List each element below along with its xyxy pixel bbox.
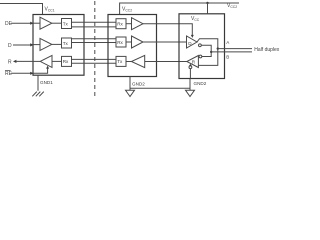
GND2 drop from transceiver <box>189 79 191 91</box>
ground GND2 triangle left <box>126 90 135 96</box>
GND2 drop from side-2 box <box>129 77 131 91</box>
svg-text:Tx: Tx <box>63 41 69 46</box>
node B junction dot <box>210 51 212 53</box>
wire pair channel3 bottom <box>72 62 117 64</box>
Tx3 box <box>116 56 126 66</box>
wire pair channel1 bottom <box>72 26 117 28</box>
svg-text:GND1: GND1 <box>40 80 53 85</box>
driver noninverting output wire <box>197 39 218 66</box>
wire channel1 out to DE enable <box>143 24 192 35</box>
wire Rx2 to buffer <box>126 23 132 25</box>
driver inverting bubble <box>199 44 202 47</box>
wire pair channel1 top <box>72 21 117 23</box>
svg-text:D: D <box>8 43 12 49</box>
svg-text:RE: RE <box>5 71 13 77</box>
svg-text:R: R <box>8 59 12 65</box>
buffer U2B triangle <box>132 36 144 48</box>
wire RE input <box>11 72 31 74</box>
transceiver box <box>179 14 225 79</box>
receiver R triangle <box>187 56 199 68</box>
wire RE enable <box>33 68 48 74</box>
wire R output inside <box>33 60 40 62</box>
wire R output outside <box>16 60 33 62</box>
isolation barrier dashed line <box>94 1 96 98</box>
wire channel2 out to D input <box>143 41 187 43</box>
overline RE <box>5 70 11 72</box>
isolator side-2 box <box>108 15 157 77</box>
VCC1 rail <box>0 4 43 15</box>
node A junction dot <box>217 47 219 49</box>
Rx2 box <box>116 19 126 29</box>
wire DE input <box>11 22 31 24</box>
ground GND2 triangle right <box>186 90 195 96</box>
Rx1 box <box>62 56 72 66</box>
Tx2 box <box>62 38 72 48</box>
arrow DE enable into driver <box>191 35 194 38</box>
wire DE inside to buffer <box>33 22 40 24</box>
buffer U2C triangle left <box>131 55 144 67</box>
wire buffer to Tx1 <box>52 22 62 24</box>
wire bus A <box>218 48 252 50</box>
buffer U1A triangle <box>40 17 52 29</box>
wire VCC drop to transceiver <box>207 3 209 14</box>
wire pair channel3 top <box>72 58 117 60</box>
wire R return from transceiver <box>145 61 187 63</box>
svg-text:R: R <box>192 59 196 64</box>
svg-text:DE: DE <box>5 21 13 27</box>
wire inverting output <box>201 45 211 56</box>
svg-text:Rx: Rx <box>117 40 123 45</box>
svg-text:VCC: VCC <box>191 16 200 22</box>
arrow RE into box <box>30 72 33 75</box>
svg-text:Tx: Tx <box>63 21 69 26</box>
wire Rx3 to buffer <box>126 41 132 43</box>
wire D inside to buffer <box>33 44 40 46</box>
receiver inverting bubble <box>199 55 202 58</box>
wire D input <box>13 44 31 46</box>
svg-text:B: B <box>226 55 229 60</box>
Tx1 box <box>62 19 72 29</box>
svg-text:A: A <box>226 40 230 45</box>
ground GND1 earth symbol <box>32 92 44 97</box>
svg-text:VCC1: VCC1 <box>45 7 55 13</box>
svg-text:Rx: Rx <box>63 59 69 64</box>
svg-text:VCC2: VCC2 <box>122 7 132 13</box>
buffer U2A triangle <box>132 18 144 30</box>
receiver enable bubble <box>189 66 192 69</box>
VCC2 rail <box>120 3 239 15</box>
svg-text:VCC2: VCC2 <box>227 3 237 9</box>
wire bus B <box>211 51 252 53</box>
wire buffer to Tx3 <box>126 61 131 63</box>
arrow R out <box>13 60 16 63</box>
wire Rx1 to buffer <box>52 60 62 62</box>
isolator side-1 box <box>33 15 84 76</box>
wire receiver enable to GND2 <box>189 69 191 79</box>
buffer U1B triangle <box>40 38 52 50</box>
wire buffer to Tx2 <box>52 43 62 45</box>
GND1 stub <box>37 75 39 91</box>
arrow receiver enable <box>189 64 192 66</box>
GND2 bus wire <box>130 87 190 89</box>
arrow DE into box <box>30 22 33 25</box>
svg-text:Rx: Rx <box>117 22 123 27</box>
wire pair channel2 top <box>72 38 117 40</box>
arrow RE enable into buffer <box>46 66 49 69</box>
driver D triangle <box>187 36 198 48</box>
wire pair channel2 bottom <box>72 42 117 44</box>
buffer U1C triangle left <box>40 55 52 67</box>
svg-text:Tx: Tx <box>117 59 123 64</box>
svg-text:GND2: GND2 <box>194 81 207 86</box>
arrow D into box <box>30 43 33 46</box>
VCC dot junction <box>206 2 208 4</box>
svg-text:GND2: GND2 <box>132 81 145 86</box>
svg-text:Half duplex: Half duplex <box>254 47 280 53</box>
Rx3 box <box>116 37 126 47</box>
